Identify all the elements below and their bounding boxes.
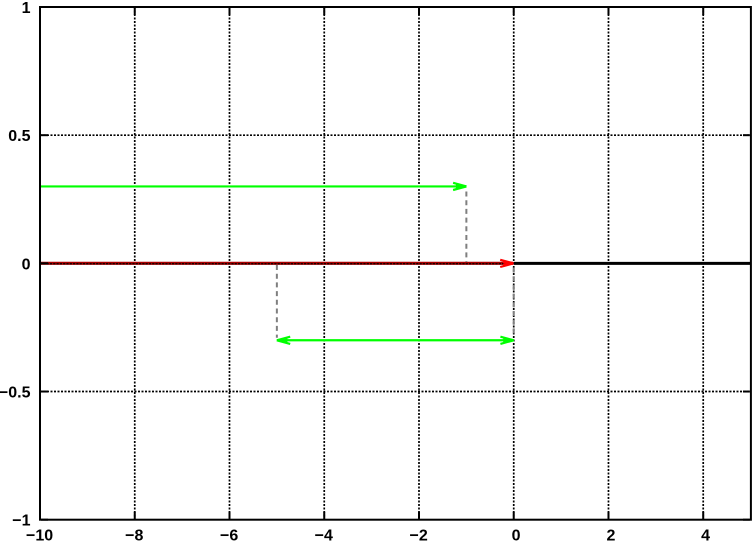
green arrowhead right at (0,-0.3): [500, 337, 513, 344]
green double-arrow shaft from (-5,-0.3) to (0,-0.3): [278, 339, 513, 341]
svg-text:1: 1: [22, 0, 31, 17]
svg-text:−2: −2: [409, 528, 427, 542]
horizontal dotted gridlines y=0.5 and y=-0.5: [40, 135, 751, 391]
left axis ticks: [41, 7, 48, 520]
bottom axis ticks: [40, 512, 703, 519]
horizontal dotted gridline y=0 (drawn over lines): [40, 263, 751, 265]
svg-text:4: 4: [701, 528, 710, 542]
grey dashed drop line at x=-1 from y=0.3 to 0: [465, 192, 467, 263]
svg-text:−10: −10: [26, 528, 53, 542]
black line segment y=0 from x=0 to 5: [514, 262, 751, 265]
svg-text:0: 0: [22, 256, 31, 273]
vertical dotted gridlines: [135, 7, 703, 520]
grey dashed drop line at x=-5 from y=0 to -0.3: [276, 265, 278, 338]
svg-text:0.5: 0.5: [8, 128, 30, 145]
svg-text:−0.5: −0.5: [0, 385, 31, 402]
right axis ticks: [743, 7, 750, 520]
svg-text:0: 0: [512, 528, 521, 542]
svg-text:−6: −6: [220, 528, 238, 542]
svg-text:−8: −8: [125, 528, 143, 542]
y axis tick labels: [0, 0, 31, 530]
svg-text:2: 2: [607, 528, 616, 542]
top axis ticks: [40, 8, 703, 15]
svg-text:−4: −4: [315, 528, 333, 542]
green arrowhead left at (-5,-0.3): [277, 337, 290, 344]
grey dashed drop line at x=0 from y=0 to -0.3: [513, 268, 515, 335]
green arrowhead at (-1,0.3): [453, 183, 466, 190]
dark red line segment y=0 from x=-10 to 0: [40, 262, 513, 265]
x axis tick labels: [26, 528, 710, 542]
red arrowhead at (0,0): [500, 260, 513, 267]
green arrow shaft from (-10,0.3) to (-1,0.3): [40, 185, 465, 187]
